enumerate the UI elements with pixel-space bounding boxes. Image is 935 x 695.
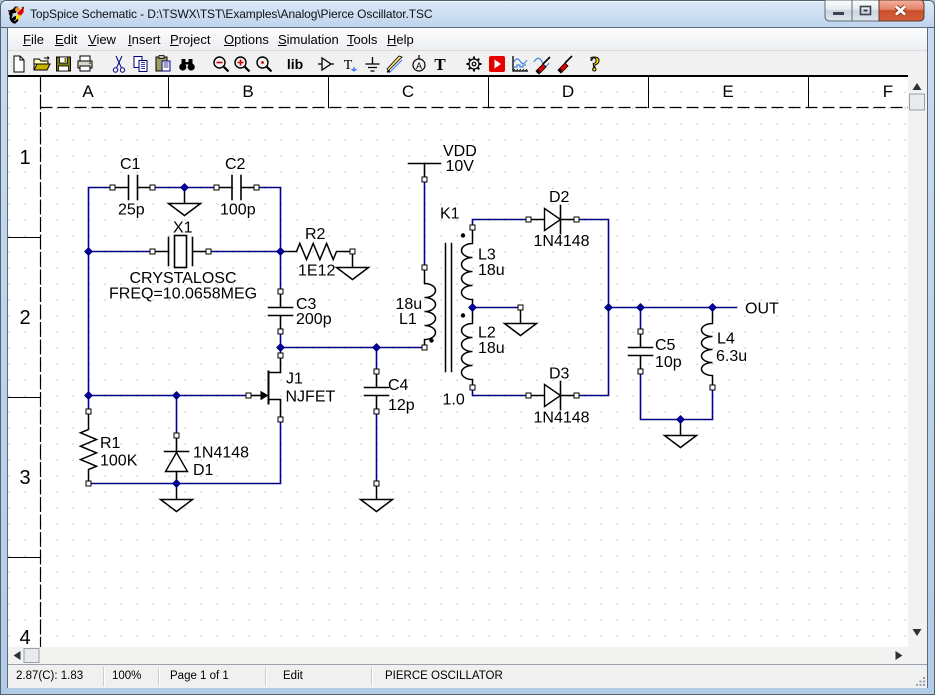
junction node dots bbox=[84, 183, 717, 488]
wire C1 to C2 through top junction bbox=[153, 187, 217, 189]
svg-text:?: ? bbox=[590, 52, 601, 76]
icon component bbox=[318, 58, 334, 70]
svg-text:A: A bbox=[416, 61, 422, 71]
pin ground C4 bbox=[374, 481, 379, 486]
node L4 top bbox=[708, 303, 717, 312]
node bottom/D1 bbox=[172, 479, 181, 488]
icon plot graph bbox=[513, 56, 528, 71]
inductor L4 bbox=[702, 308, 713, 388]
window buttons bbox=[824, 0, 926, 22]
pin C1.1 bbox=[110, 185, 115, 190]
icon copy bbox=[134, 57, 147, 72]
wire gate node down to D1 bbox=[176, 396, 178, 436]
node C1/C2/ground bbox=[180, 183, 189, 192]
ruler column separators bbox=[168, 77, 169, 108]
pin R1.1 bbox=[86, 409, 91, 414]
diode D3 bbox=[529, 382, 577, 410]
node center tap bbox=[468, 303, 477, 312]
pin X1.1 bbox=[150, 249, 155, 254]
wire output row bbox=[609, 307, 737, 309]
polarity dot L2 bbox=[461, 313, 465, 317]
pin C4.2 bbox=[374, 409, 379, 414]
resistor R2 bbox=[281, 244, 353, 260]
ground (bottom left) bbox=[161, 484, 193, 512]
wire L3 top to D2 anode bbox=[473, 220, 529, 228]
wire drain node to L1 bottom bbox=[281, 347, 425, 349]
pin R1.2 bbox=[86, 481, 91, 486]
sheet border dashed bbox=[8, 77, 908, 647]
icon open bbox=[34, 57, 50, 71]
wire transformer center tap to ground pin bbox=[473, 307, 521, 309]
icon find bbox=[179, 59, 195, 71]
node gate/D1 bbox=[172, 391, 181, 400]
wire node to C3 bbox=[280, 252, 282, 292]
svg-text:T: T bbox=[344, 58, 353, 73]
inductor L3 bbox=[462, 228, 473, 308]
wire C5 bottom to L4 bottom bbox=[641, 372, 713, 420]
wire crystal row left bbox=[89, 251, 153, 253]
icon save bbox=[57, 57, 71, 71]
capacitor C3 bbox=[269, 292, 293, 332]
pin C5.1 bbox=[638, 329, 643, 334]
wire left vertical + top-left segment bbox=[89, 188, 113, 412]
pin L2.2 bbox=[470, 385, 475, 390]
capacitor C1 bbox=[113, 176, 153, 200]
wire crystal row right bbox=[209, 251, 281, 253]
node left crystal bbox=[84, 247, 93, 256]
pin VDD bbox=[422, 177, 427, 182]
pin J1.drain bbox=[278, 353, 283, 358]
column labels bbox=[68, 82, 108, 102]
node drain/L1 bbox=[276, 343, 285, 352]
app icon placeholder bbox=[8, 6, 26, 24]
pin D3.anode bbox=[526, 393, 531, 398]
icon probe bbox=[558, 56, 572, 73]
icon new bbox=[14, 56, 24, 72]
icon paste bbox=[156, 56, 170, 72]
wire C4 bottom to ground pin bbox=[376, 412, 378, 484]
pin C4.1 bbox=[374, 369, 379, 374]
icon label T bbox=[344, 58, 357, 73]
pin J1.gate bbox=[246, 393, 251, 398]
icon options gear bbox=[467, 57, 482, 72]
pin C1.2 bbox=[150, 185, 155, 190]
diode D1 bbox=[165, 436, 189, 484]
wire bottom-left row up to J1 source bbox=[89, 420, 281, 484]
resistor R1 bbox=[81, 412, 97, 484]
pin X1.2 bbox=[206, 249, 211, 254]
power VDD bbox=[409, 164, 441, 180]
ground (C4) bbox=[361, 484, 393, 512]
node output ground bbox=[676, 415, 685, 424]
wire gate row bbox=[89, 395, 249, 397]
pin R2.2 bbox=[350, 249, 355, 254]
transistor J1 (NJFET) bbox=[249, 356, 281, 420]
wire D2 cathode to D3 cathode vertical bbox=[577, 220, 609, 396]
node diode output bbox=[604, 303, 613, 312]
capacitor C2 bbox=[217, 176, 257, 200]
icon cut bbox=[113, 56, 124, 72]
icon probe waveform bbox=[534, 57, 550, 74]
row labels bbox=[15, 147, 35, 170]
icon zoom out bbox=[214, 57, 229, 72]
svg-text:T: T bbox=[434, 55, 446, 74]
svg-text:lib: lib bbox=[287, 56, 303, 72]
icon run simulation bbox=[489, 56, 505, 72]
capacitor C5 bbox=[629, 332, 653, 372]
ruler row separators bbox=[8, 237, 41, 238]
ground (output) bbox=[665, 420, 697, 448]
pin D3.cathode bbox=[574, 393, 579, 398]
icon probe A bbox=[413, 55, 425, 71]
pin L4.2 bbox=[710, 385, 715, 390]
pin D2.cathode bbox=[574, 217, 579, 222]
crystal X1 bbox=[153, 236, 209, 268]
ground (C1/C2 node) bbox=[169, 188, 201, 216]
node right crystal bbox=[276, 247, 285, 256]
icon zoom sel bbox=[257, 57, 272, 72]
pin L3.1 bbox=[470, 225, 475, 230]
capacitor C4 bbox=[365, 372, 389, 412]
polarity dot L3 bbox=[461, 233, 465, 237]
inductor L1 bbox=[425, 268, 436, 348]
wire VDD to L1 top bbox=[424, 180, 426, 268]
wire C2 to right corner down bbox=[257, 188, 281, 252]
wire C4 top lead bbox=[376, 348, 378, 372]
node C5 top bbox=[636, 303, 645, 312]
node gate left bbox=[84, 391, 93, 400]
ground (center tap) bbox=[505, 308, 537, 336]
pin C5.2 bbox=[638, 369, 643, 374]
icon print bbox=[78, 56, 92, 71]
ground (R2) bbox=[337, 252, 369, 280]
pin L1.2 bbox=[422, 345, 427, 350]
transformer core K1 bbox=[446, 244, 452, 372]
pin D2.anode bbox=[526, 217, 531, 222]
icon ground bbox=[366, 57, 380, 71]
diode D2 bbox=[529, 206, 577, 234]
pin L1.1 bbox=[422, 265, 427, 270]
pin C3.2 bbox=[278, 329, 283, 334]
icon draw line bbox=[387, 56, 402, 73]
polarity dot L1 bbox=[429, 338, 433, 342]
pin J1.source bbox=[278, 417, 283, 422]
pin C2.2 bbox=[254, 185, 259, 190]
wire C3 to J1 drain bbox=[280, 332, 282, 356]
wire L2 bottom to D3 anode bbox=[473, 388, 529, 396]
pin ground center tap bbox=[518, 305, 523, 310]
pin D1.cathode bbox=[174, 433, 179, 438]
pin C3.1 bbox=[278, 289, 283, 294]
wire C5 top lead bbox=[640, 308, 642, 332]
icon zoom in bbox=[235, 57, 250, 72]
pin C2.1 bbox=[214, 185, 219, 190]
node C4 top bbox=[372, 343, 381, 352]
pin squares bbox=[86, 177, 715, 486]
inductor L2 bbox=[462, 308, 473, 388]
